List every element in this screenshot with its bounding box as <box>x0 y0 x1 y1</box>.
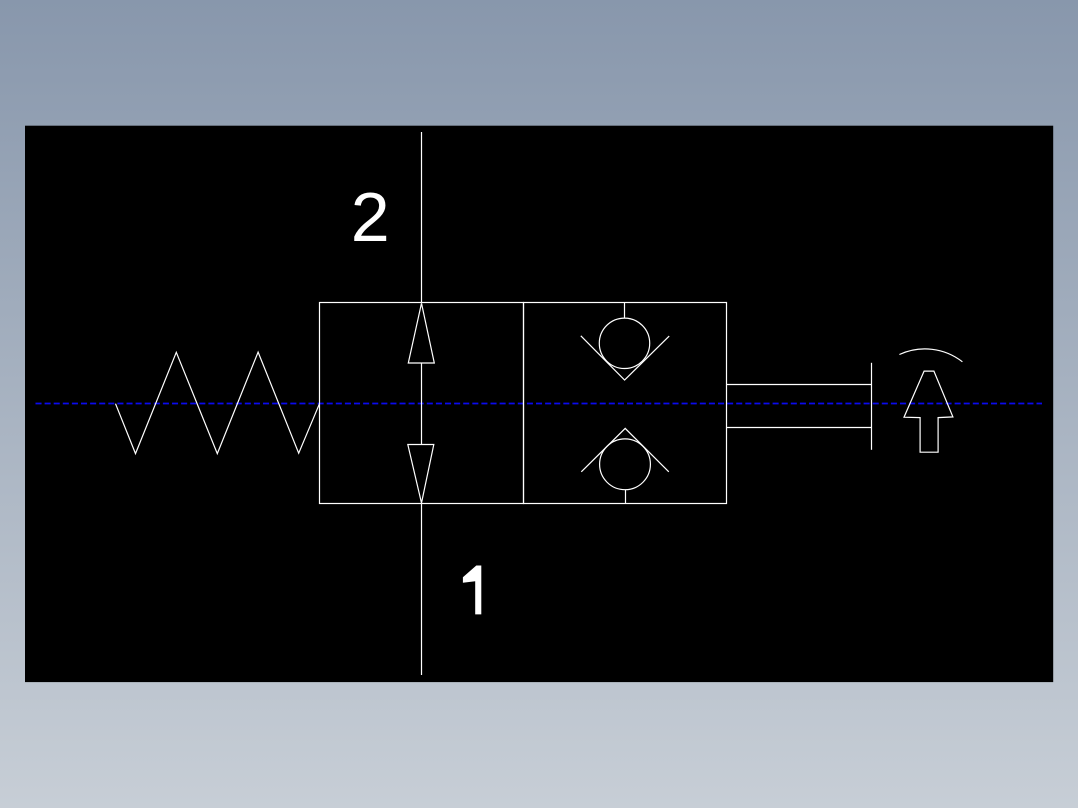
valve body right box <box>524 303 727 504</box>
port label 1 <box>463 566 481 615</box>
check valve lower: ball <box>600 439 651 490</box>
manual actuator arrow <box>904 371 953 452</box>
port line 2 <box>421 132 423 303</box>
drawing background <box>25 126 1053 682</box>
flow arrow up <box>408 303 434 363</box>
port line 1 <box>421 504 423 676</box>
flow path wire <box>421 363 423 445</box>
check valve lower: seat <box>581 428 669 471</box>
check valve upper: stub wire <box>624 303 626 319</box>
actuator rod upper line <box>727 384 872 386</box>
flow arrow down <box>408 445 434 504</box>
actuator bar <box>871 363 873 450</box>
centerline (blue dashed axis) <box>36 403 1043 405</box>
check valve upper: seat <box>581 336 669 380</box>
check valve lower: stub wire <box>625 490 627 504</box>
spring <box>116 352 320 454</box>
valve body left box <box>320 303 524 504</box>
actuator rod lower line <box>727 427 872 429</box>
check valve upper: ball <box>599 318 649 368</box>
actuator arc <box>899 349 962 362</box>
svg-text:2: 2 <box>351 178 390 256</box>
